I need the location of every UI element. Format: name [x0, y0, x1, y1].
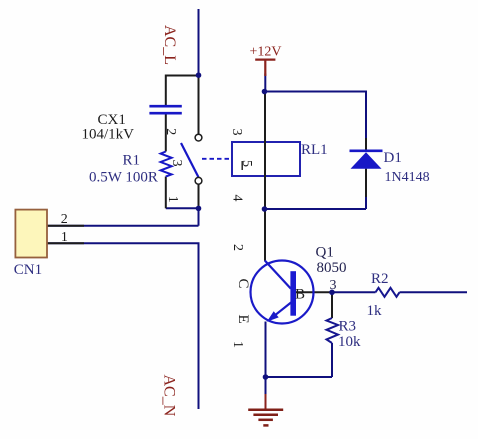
svg-text:C: C: [235, 279, 251, 289]
svg-text:AC_L: AC_L: [161, 25, 178, 65]
svg-text:3: 3: [169, 160, 184, 167]
svg-text:CN1: CN1: [14, 262, 42, 278]
svg-text:104/1kV: 104/1kV: [82, 127, 135, 143]
svg-text:0.5W 100R: 0.5W 100R: [89, 169, 158, 185]
svg-text:B: B: [295, 287, 305, 303]
svg-text:1: 1: [230, 341, 245, 348]
svg-text:+12V: +12V: [250, 45, 282, 60]
svg-text:3: 3: [229, 129, 244, 136]
svg-text:2: 2: [230, 244, 245, 251]
svg-text:1: 1: [165, 196, 180, 203]
svg-text:R2: R2: [371, 271, 389, 287]
svg-text:1N4148: 1N4148: [385, 170, 430, 185]
svg-text:2: 2: [163, 128, 178, 135]
svg-text:CX1: CX1: [98, 112, 126, 128]
svg-text:RL1: RL1: [301, 142, 328, 158]
svg-text:D1: D1: [384, 150, 402, 166]
svg-text:AC_N: AC_N: [161, 375, 178, 417]
svg-text:1k: 1k: [367, 303, 383, 319]
svg-text:5: 5: [239, 160, 254, 167]
svg-text:8050: 8050: [317, 260, 347, 276]
svg-text:R3: R3: [339, 319, 357, 335]
svg-text:10k: 10k: [338, 334, 361, 350]
svg-text:R1: R1: [123, 153, 141, 169]
svg-text:Q1: Q1: [316, 245, 334, 261]
svg-text:3: 3: [330, 278, 337, 293]
svg-text:1: 1: [61, 230, 68, 245]
svg-text:E: E: [235, 315, 251, 324]
svg-text:2: 2: [61, 212, 68, 227]
svg-text:4: 4: [230, 195, 245, 202]
